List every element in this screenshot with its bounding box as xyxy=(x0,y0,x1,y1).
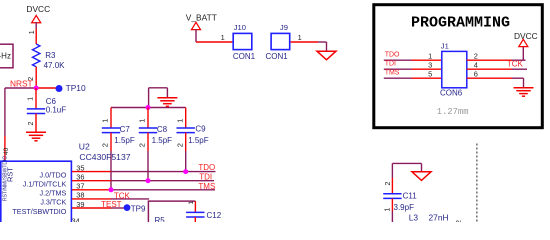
svg-text:1: 1 xyxy=(138,119,147,123)
svg-text:V_BATT: V_BATT xyxy=(186,12,217,22)
svg-text:DVCC: DVCC xyxy=(514,31,538,41)
svg-text:47.0K: 47.0K xyxy=(44,61,66,70)
svg-text:J10: J10 xyxy=(234,23,246,32)
svg-text:CC430F5137: CC430F5137 xyxy=(79,152,130,162)
svg-text:2: 2 xyxy=(474,52,478,61)
svg-text:C7: C7 xyxy=(120,125,131,134)
svg-text:-Hz: -Hz xyxy=(0,52,11,61)
svg-text:34: 34 xyxy=(72,216,80,222)
svg-text:1.5pF: 1.5pF xyxy=(114,136,135,145)
svg-text:CON1: CON1 xyxy=(233,52,256,61)
svg-text:J1: J1 xyxy=(441,41,449,50)
svg-text:TEST: TEST xyxy=(101,200,122,209)
svg-text:J.3/TCK: J.3/TCK xyxy=(40,198,66,207)
svg-text:PROGRAMMING: PROGRAMMING xyxy=(411,14,510,31)
svg-text:3.9pF: 3.9pF xyxy=(394,203,415,212)
svg-text:4: 4 xyxy=(474,61,478,70)
svg-text:27nH: 27nH xyxy=(429,213,449,222)
svg-text:6: 6 xyxy=(474,70,478,79)
svg-text:NRST: NRST xyxy=(10,78,33,88)
svg-text:J.1/TDI/TCLK: J.1/TDI/TCLK xyxy=(23,180,67,189)
svg-text:C11: C11 xyxy=(403,192,418,201)
svg-text:1: 1 xyxy=(298,33,302,42)
svg-text:1.27mm: 1.27mm xyxy=(437,107,469,117)
svg-text:2: 2 xyxy=(385,182,392,186)
svg-text:TDO: TDO xyxy=(198,163,215,172)
svg-text:1: 1 xyxy=(29,30,36,34)
svg-text:2: 2 xyxy=(456,220,463,222)
svg-text:5: 5 xyxy=(428,70,432,79)
svg-text:C12: C12 xyxy=(207,211,222,220)
svg-text:40: 40 xyxy=(3,147,10,155)
svg-text:1: 1 xyxy=(428,52,432,61)
svg-text:C8: C8 xyxy=(157,125,168,134)
svg-text:TDI: TDI xyxy=(199,173,212,182)
svg-text:TP10: TP10 xyxy=(66,83,86,93)
svg-text:TCK: TCK xyxy=(507,60,524,69)
svg-text:TEST/SBWTDIO: TEST/SBWTDIO xyxy=(12,207,66,216)
svg-text:3: 3 xyxy=(428,61,432,70)
svg-text:R3: R3 xyxy=(45,51,56,60)
svg-text:DVCC: DVCC xyxy=(26,4,50,14)
svg-text:0.1uF: 0.1uF xyxy=(46,106,67,115)
svg-text:U2: U2 xyxy=(79,141,90,151)
svg-text:CON6: CON6 xyxy=(440,88,463,97)
svg-text:CON1: CON1 xyxy=(266,52,289,61)
svg-text:TMS: TMS xyxy=(385,70,400,77)
svg-text:1: 1 xyxy=(188,201,195,205)
svg-text:1: 1 xyxy=(221,33,225,42)
svg-text:RST: RST xyxy=(5,167,14,182)
svg-text:TP9: TP9 xyxy=(131,204,146,213)
svg-text:2: 2 xyxy=(101,143,110,147)
svg-text:R5: R5 xyxy=(155,216,166,222)
svg-text:1.5pF: 1.5pF xyxy=(152,136,173,145)
svg-text:TDI: TDI xyxy=(385,61,396,68)
svg-text:1: 1 xyxy=(101,119,110,123)
svg-text:J9: J9 xyxy=(280,23,288,32)
svg-text:2: 2 xyxy=(28,122,35,126)
svg-text:C9: C9 xyxy=(195,125,206,134)
svg-text:2: 2 xyxy=(175,143,184,147)
svg-text:J.2/TMS: J.2/TMS xyxy=(40,189,67,198)
svg-text:1: 1 xyxy=(175,119,184,123)
svg-text:1: 1 xyxy=(28,97,35,101)
svg-text:L3: L3 xyxy=(409,213,419,222)
svg-text:2: 2 xyxy=(138,143,147,147)
svg-text:1.5pF: 1.5pF xyxy=(188,136,209,145)
svg-text:TMS: TMS xyxy=(198,182,215,191)
svg-text:TDO: TDO xyxy=(385,52,400,59)
svg-text:1: 1 xyxy=(385,208,392,212)
svg-text:J.0/TDO: J.0/TDO xyxy=(40,170,67,179)
